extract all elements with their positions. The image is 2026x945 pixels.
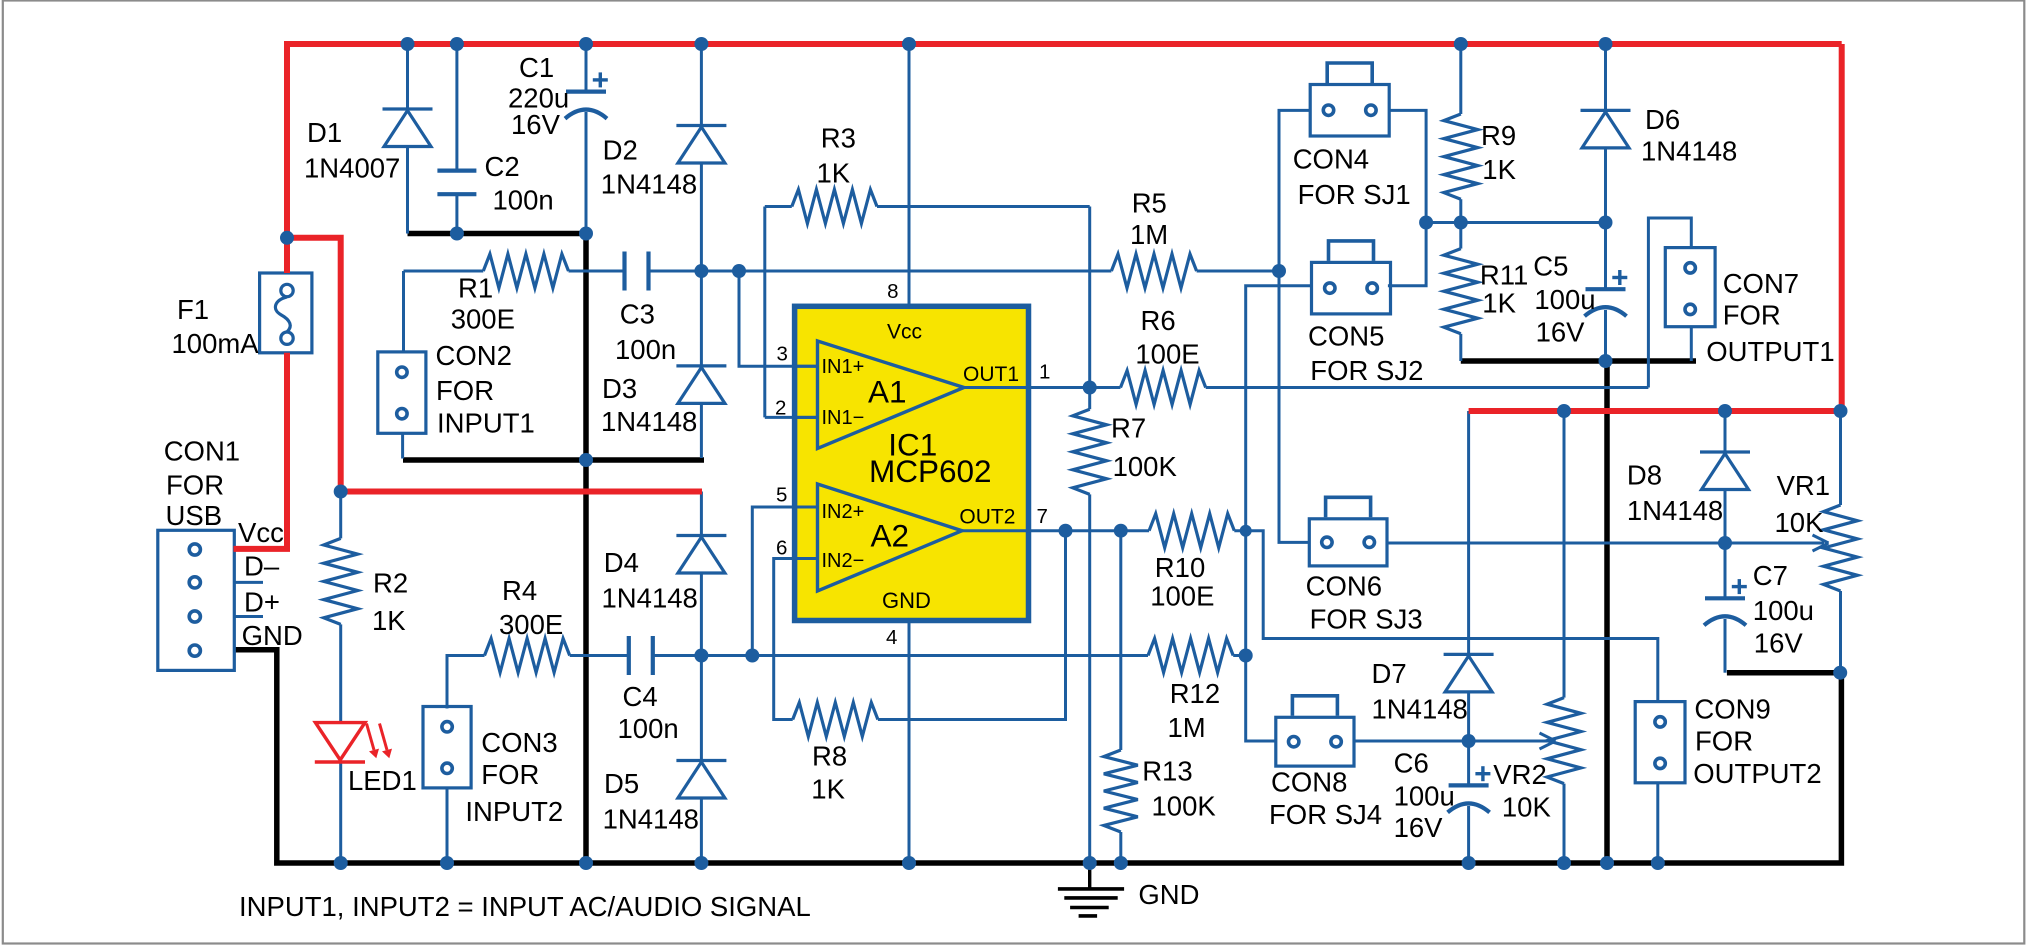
svg-text:CON8: CON8	[1271, 767, 1347, 798]
svg-text:D7: D7	[1372, 658, 1407, 689]
svg-text:CON1: CON1	[164, 435, 240, 466]
svg-text:C5: C5	[1533, 251, 1568, 282]
svg-text:VR2: VR2	[1493, 759, 1547, 790]
svg-text:OUT2: OUT2	[959, 506, 1015, 529]
svg-text:Vcc: Vcc	[238, 517, 284, 548]
svg-text:1K: 1K	[817, 158, 851, 189]
svg-text:C4: C4	[623, 681, 658, 712]
svg-text:USB: USB	[166, 500, 223, 531]
svg-text:1: 1	[1039, 361, 1050, 384]
svg-text:R8: R8	[812, 740, 847, 771]
svg-text:F1: F1	[177, 294, 209, 325]
svg-text:R1: R1	[458, 273, 493, 304]
svg-text:OUTPUT2: OUTPUT2	[1693, 758, 1821, 789]
svg-text:GND: GND	[882, 588, 931, 613]
svg-text:CON3: CON3	[481, 727, 557, 758]
svg-text:16V: 16V	[1394, 812, 1444, 843]
svg-text:R11: R11	[1480, 260, 1528, 291]
svg-text:CON7: CON7	[1723, 268, 1799, 299]
svg-text:1N4148: 1N4148	[601, 406, 697, 437]
svg-text:IN2+: IN2+	[822, 501, 865, 523]
svg-text:100n: 100n	[493, 185, 554, 216]
svg-text:D5: D5	[604, 768, 639, 799]
svg-text:MCP602: MCP602	[869, 453, 992, 489]
svg-text:GND: GND	[242, 620, 303, 651]
svg-text:IN1+: IN1+	[822, 356, 865, 378]
svg-text:1N4148: 1N4148	[602, 583, 698, 614]
svg-text:R6: R6	[1141, 305, 1176, 336]
svg-text:R2: R2	[373, 568, 408, 599]
svg-text:1N4148: 1N4148	[1641, 136, 1737, 167]
svg-text:100K: 100K	[1113, 451, 1178, 482]
svg-text:FOR SJ4: FOR SJ4	[1269, 799, 1382, 830]
svg-text:CON2: CON2	[436, 340, 512, 371]
svg-text:FOR SJ1: FOR SJ1	[1298, 179, 1411, 210]
svg-text:R7: R7	[1111, 413, 1146, 444]
svg-text:FOR: FOR	[481, 759, 539, 790]
svg-text:INPUT1: INPUT1	[437, 408, 535, 439]
svg-text:INPUT1, INPUT2 = INPUT AC/AUDI: INPUT1, INPUT2 = INPUT AC/AUDIO SIGNAL	[239, 891, 811, 922]
svg-text:100u: 100u	[1534, 284, 1595, 315]
svg-text:OUTPUT1: OUTPUT1	[1706, 336, 1834, 367]
svg-text:R5: R5	[1132, 187, 1167, 218]
svg-text:D–: D–	[244, 551, 280, 582]
svg-text:Vcc: Vcc	[887, 321, 922, 344]
svg-text:1K: 1K	[1482, 154, 1516, 185]
svg-text:R10: R10	[1155, 552, 1205, 583]
svg-text:D6: D6	[1645, 104, 1680, 135]
svg-text:100n: 100n	[618, 713, 679, 744]
svg-text:16V: 16V	[1536, 317, 1586, 348]
svg-text:300E: 300E	[499, 609, 563, 640]
svg-text:D2: D2	[603, 135, 638, 166]
svg-text:D3: D3	[602, 373, 637, 404]
svg-text:1K: 1K	[1482, 288, 1516, 319]
svg-text:1M: 1M	[1168, 712, 1206, 743]
svg-text:CON9: CON9	[1694, 693, 1770, 724]
svg-text:100u: 100u	[1394, 781, 1455, 812]
svg-text:300E: 300E	[451, 304, 515, 335]
svg-text:C3: C3	[620, 298, 655, 329]
svg-text:100K: 100K	[1152, 790, 1217, 821]
svg-text:1M: 1M	[1130, 219, 1168, 250]
svg-text:D4: D4	[604, 547, 639, 578]
svg-text:CON6: CON6	[1306, 571, 1382, 602]
svg-text:FOR: FOR	[166, 470, 224, 501]
svg-text:GND: GND	[1138, 879, 1199, 910]
svg-text:R9: R9	[1481, 120, 1516, 151]
svg-text:R13: R13	[1142, 756, 1192, 787]
svg-text:10K: 10K	[1775, 507, 1825, 538]
svg-text:FOR SJ3: FOR SJ3	[1310, 604, 1423, 635]
svg-text:D8: D8	[1627, 459, 1662, 490]
svg-text:5: 5	[776, 484, 787, 507]
svg-text:FOR: FOR	[1723, 299, 1781, 330]
svg-text:3: 3	[777, 343, 788, 366]
svg-text:D+: D+	[244, 586, 280, 617]
svg-text:FOR SJ2: FOR SJ2	[1310, 355, 1423, 386]
svg-text:R3: R3	[821, 123, 856, 154]
svg-text:1K: 1K	[811, 774, 845, 805]
svg-text:A1: A1	[868, 374, 907, 410]
svg-text:R4: R4	[502, 575, 537, 606]
svg-text:16V: 16V	[511, 109, 561, 140]
svg-text:IN2−: IN2−	[822, 550, 865, 572]
svg-text:IN1−: IN1−	[822, 407, 865, 429]
svg-text:100E: 100E	[1135, 338, 1199, 369]
svg-text:CON5: CON5	[1308, 320, 1384, 351]
svg-text:1N4148: 1N4148	[601, 169, 697, 200]
svg-text:4: 4	[886, 626, 897, 649]
svg-text:100u: 100u	[1753, 595, 1814, 626]
svg-text:10K: 10K	[1502, 792, 1552, 823]
svg-text:C7: C7	[1753, 560, 1788, 591]
svg-text:8: 8	[887, 280, 898, 303]
svg-text:1N4148: 1N4148	[1372, 693, 1468, 724]
svg-text:VR1: VR1	[1777, 470, 1831, 501]
svg-text:C1: C1	[519, 52, 554, 83]
svg-text:1N4148: 1N4148	[1627, 495, 1723, 526]
svg-text:CON4: CON4	[1293, 143, 1369, 174]
svg-text:OUT1: OUT1	[963, 363, 1019, 386]
svg-text:A2: A2	[871, 518, 910, 554]
svg-text:C2: C2	[485, 151, 520, 182]
svg-text:C6: C6	[1394, 748, 1429, 779]
svg-text:FOR: FOR	[436, 375, 494, 406]
svg-text:1N4007: 1N4007	[304, 153, 400, 184]
svg-text:LED1: LED1	[348, 765, 417, 796]
svg-text:16V: 16V	[1754, 627, 1804, 658]
svg-text:6: 6	[776, 537, 787, 560]
svg-text:100mA: 100mA	[172, 328, 260, 359]
svg-text:D1: D1	[307, 117, 342, 148]
svg-text:100n: 100n	[615, 334, 676, 365]
svg-text:100E: 100E	[1150, 581, 1214, 612]
svg-text:1N4148: 1N4148	[603, 804, 699, 835]
svg-text:R12: R12	[1170, 678, 1220, 709]
svg-text:INPUT2: INPUT2	[465, 796, 563, 827]
svg-text:1K: 1K	[372, 605, 406, 636]
svg-text:FOR: FOR	[1695, 726, 1753, 757]
svg-text:7: 7	[1037, 505, 1048, 528]
svg-text:2: 2	[775, 397, 786, 420]
